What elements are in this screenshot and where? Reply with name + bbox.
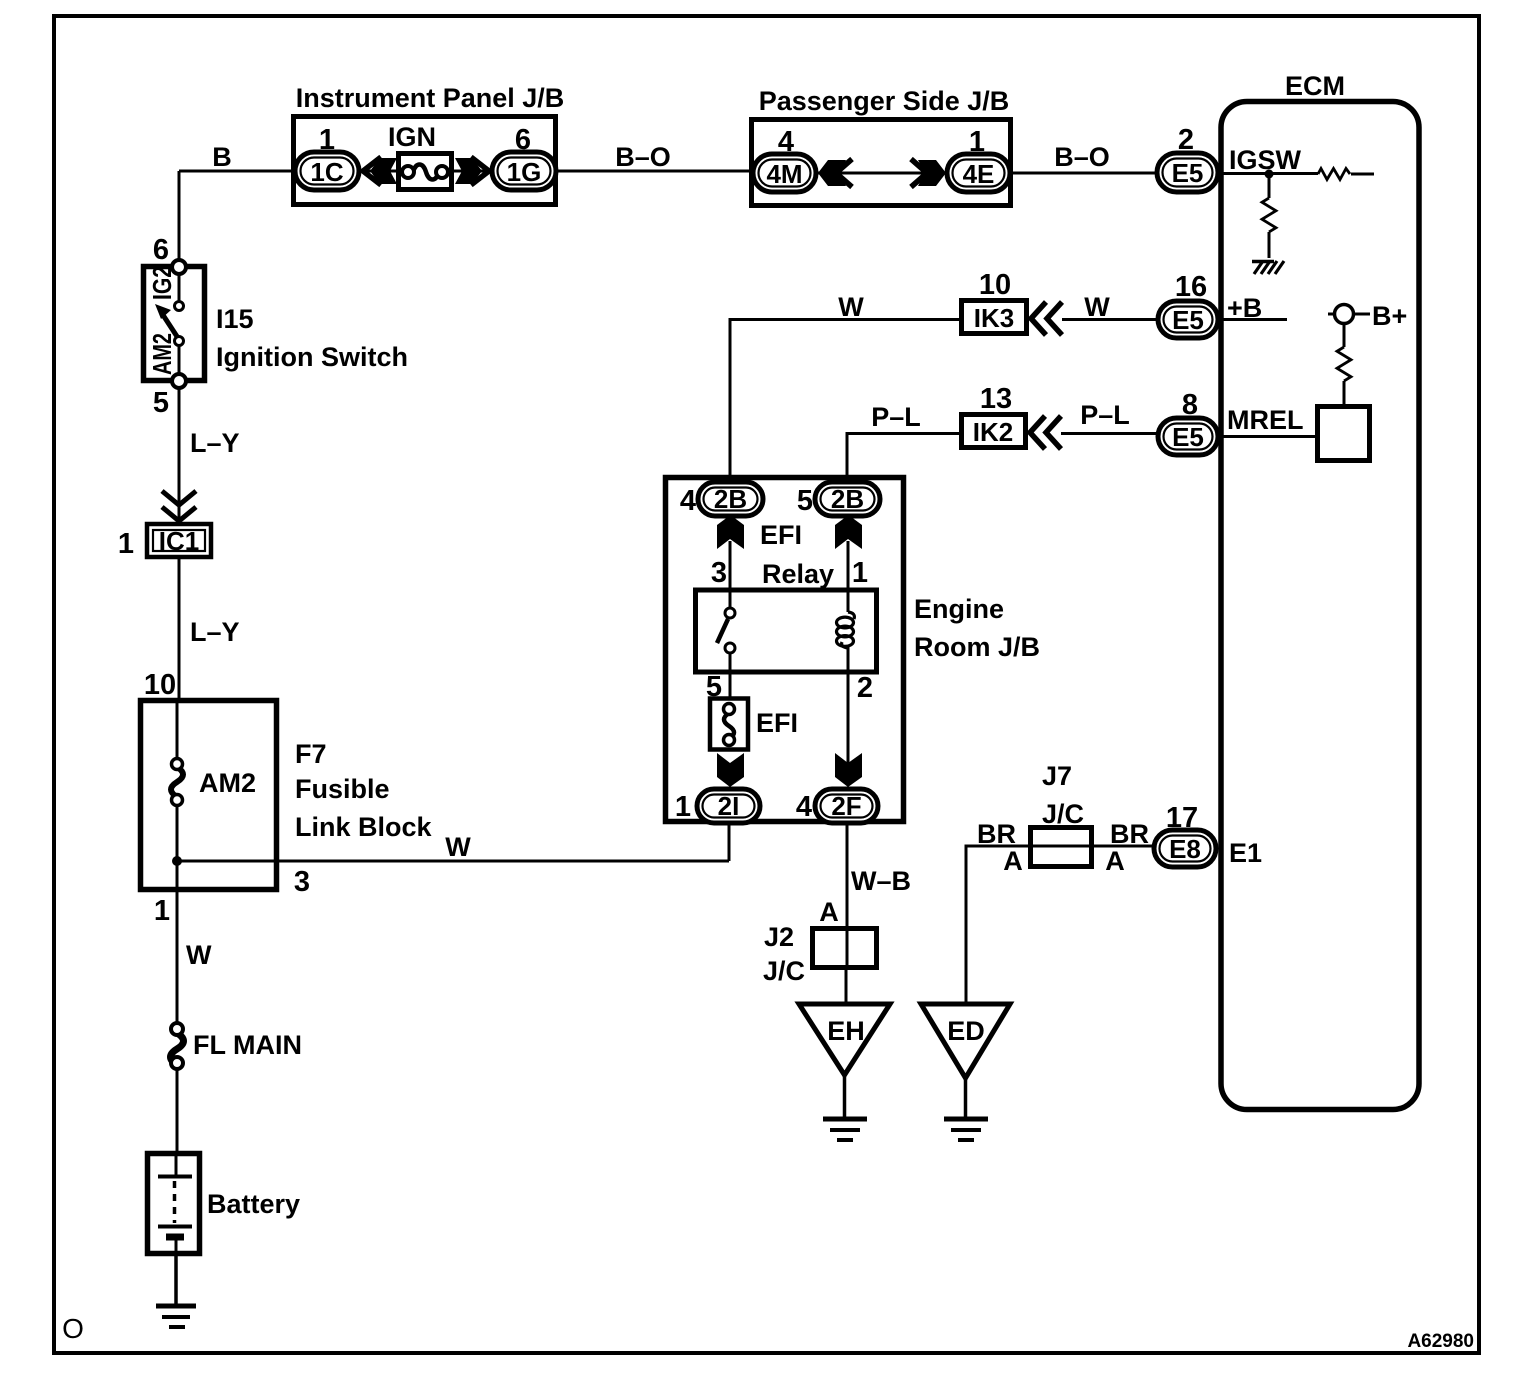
wire B-O: 1G to 4M	[556, 142, 753, 172]
wire P-L: Engine Room J/B 2B pin 5 to IK2	[847, 402, 959, 482]
connector 4E pin 1	[947, 126, 1010, 192]
net +B inside ECM	[1218, 293, 1287, 323]
svg-text:J7: J7	[1042, 761, 1072, 791]
svg-text:EH: EH	[827, 1016, 865, 1046]
svg-text:Engine: Engine	[914, 594, 1004, 624]
svg-text:Battery: Battery	[207, 1189, 300, 1219]
svg-text:E1: E1	[1229, 838, 1262, 868]
svg-text:L–Y: L–Y	[190, 428, 240, 458]
svg-text:W: W	[1084, 292, 1110, 322]
wire: 2I down to W bus	[728, 823, 731, 861]
connector 2I pin 1	[675, 789, 760, 823]
shield ground ED	[921, 1004, 1010, 1140]
wire: pin 6 to contact	[178, 274, 181, 301]
svg-text:IC1: IC1	[159, 526, 199, 556]
bus arrow left (toward 1C)	[363, 157, 381, 185]
svg-text:1: 1	[118, 528, 134, 560]
resistor (IGSW pull-down, vertical)	[1262, 198, 1276, 232]
chevrons (wire continues to IC1)	[162, 491, 196, 521]
switch lever	[163, 315, 178, 338]
svg-text:W–B: W–B	[851, 866, 911, 896]
fuse IGN	[388, 122, 452, 190]
wire: junction to pull-down resistor	[1268, 174, 1271, 258]
wire BR: shield ground ED up to J7	[966, 819, 1030, 1004]
pin 6 terminal	[153, 234, 186, 274]
svg-text:IGN: IGN	[388, 122, 436, 152]
svg-text:A62980: A62980	[1407, 1331, 1474, 1352]
wire B: ignition switch pin 6 to connector 1C	[179, 142, 295, 261]
svg-text:FL MAIN: FL MAIN	[193, 1030, 302, 1060]
wire arrow down (to 2F)	[835, 753, 862, 787]
connector 2F pin 4	[796, 789, 878, 823]
svg-text:4M: 4M	[766, 159, 802, 189]
ground (battery)	[156, 1306, 196, 1327]
chevrons (IK2 to E5)	[1030, 416, 1061, 449]
ECM block	[1221, 71, 1419, 1110]
connector E5 pin 16 (+B)	[1158, 271, 1218, 338]
net MREL inside ECM	[1218, 405, 1315, 437]
junction block: Instrument Panel J/B	[294, 83, 565, 205]
svg-text:B–O: B–O	[1054, 142, 1110, 172]
svg-text:3: 3	[294, 866, 310, 898]
wire L-Y: IC1 to fusible link block	[179, 557, 240, 698]
relay EFI Relay	[696, 520, 877, 672]
svg-text:5: 5	[797, 485, 813, 517]
relay coil	[842, 612, 855, 648]
switch contact (IG2 side)	[175, 302, 184, 311]
svg-text:1C: 1C	[310, 157, 343, 187]
svg-text:3: 3	[711, 557, 727, 589]
connector IK3 pin 10	[962, 269, 1027, 334]
fuse EFI	[710, 699, 798, 750]
wire P-L: IK2 to E5 pin 8	[1061, 400, 1158, 434]
wire arrow up (to 2B pin 4)	[717, 515, 744, 549]
svg-text:IGSW: IGSW	[1229, 145, 1302, 175]
switch I15 Ignition Switch	[144, 267, 408, 381]
svg-text:1: 1	[852, 557, 868, 589]
svg-text:W: W	[186, 940, 212, 970]
wire: pin 10 into block	[176, 700, 179, 758]
svg-text:Link Block: Link Block	[295, 812, 433, 842]
battery	[148, 1153, 301, 1254]
wire: arrow to relay pin 3	[729, 541, 732, 608]
shield ground EH	[799, 1004, 890, 1140]
svg-text:E5: E5	[1172, 422, 1204, 452]
junction connector J7 J/C	[1030, 761, 1092, 867]
svg-text:J/C: J/C	[1042, 799, 1084, 829]
node B+ (battery supply)	[1328, 301, 1407, 404]
svg-text:W: W	[445, 832, 471, 862]
svg-text:Relay: Relay	[762, 559, 834, 589]
wire W: junction to Engine Room J/B 2I	[177, 832, 729, 898]
svg-text:P–L: P–L	[1080, 400, 1130, 430]
svg-text:EFI: EFI	[760, 520, 802, 550]
svg-text:BR: BR	[1110, 819, 1149, 849]
svg-text:16: 16	[1175, 271, 1207, 303]
svg-text:A: A	[1105, 846, 1125, 876]
connector IC1 pin 1	[118, 524, 211, 560]
junction block: Engine Room J/B	[666, 478, 1041, 822]
svg-text:1G: 1G	[507, 157, 542, 187]
connector E8 pin 17 (E1)	[1154, 802, 1216, 867]
wire W: IK3 to E5 pin 16	[1062, 292, 1158, 322]
svg-text:4E: 4E	[963, 159, 995, 189]
chevrons (IK3 to E5)	[1031, 302, 1062, 335]
bus arrow (toward 4M)	[836, 159, 852, 187]
svg-text:A: A	[819, 897, 839, 927]
svg-text:2I: 2I	[718, 791, 740, 821]
svg-text:1: 1	[675, 791, 691, 823]
svg-text:10: 10	[144, 669, 176, 701]
svg-text:6: 6	[153, 234, 169, 266]
svg-text:ECM: ECM	[1285, 71, 1345, 101]
svg-text:AM2: AM2	[199, 768, 256, 798]
connector E5 pin 2 (IGSW)	[1157, 124, 1218, 192]
wire: battery to ground	[174, 1253, 178, 1306]
node: IGSW junction	[1265, 170, 1274, 179]
svg-text:2: 2	[857, 672, 873, 704]
svg-text:Ignition Switch: Ignition Switch	[216, 342, 408, 372]
connector 1G pin 6	[492, 124, 556, 190]
node: junction at pin 3	[172, 856, 182, 866]
block F7 Fusible Link Block	[141, 669, 433, 890]
svg-text:4: 4	[796, 791, 812, 823]
svg-text:B: B	[212, 142, 232, 172]
svg-text:1: 1	[154, 895, 170, 927]
svg-text:IK3: IK3	[974, 303, 1014, 333]
wire W: block pin 1 to FL MAIN	[154, 892, 212, 1024]
connector IK2 pin 13	[962, 383, 1026, 448]
svg-text:L–Y: L–Y	[190, 617, 240, 647]
wire: FL MAIN to battery	[176, 1069, 179, 1153]
svg-text:O: O	[62, 1313, 84, 1344]
junction block: Passenger Side J/B	[752, 86, 1011, 206]
svg-text:A: A	[1003, 846, 1023, 876]
wire arrow down (to 2I)	[717, 753, 744, 787]
fusible link AM2	[171, 759, 256, 806]
wire B-O: 4E to ECM connector E5	[1010, 142, 1157, 173]
wire W-B: 2F to J2	[819, 823, 911, 928]
svg-text:4: 4	[680, 485, 696, 517]
wire W: Engine Room J/B 2B pin 4 to IK3	[730, 292, 959, 482]
wire: internal bus 4M to 4E	[816, 172, 947, 175]
svg-text:2B: 2B	[714, 484, 747, 514]
wire BR: J7 to E8	[1092, 819, 1154, 876]
svg-text:I15: I15	[216, 304, 254, 334]
svg-text:J/C: J/C	[763, 956, 805, 986]
wire: arrow to relay coil pin 1	[847, 541, 850, 612]
wire: contact to pin 5	[178, 346, 181, 374]
svg-text:Fusible: Fusible	[295, 774, 390, 804]
svg-text:IG2: IG2	[147, 266, 177, 300]
svg-text:AM2: AM2	[147, 333, 177, 375]
resistor (IGSW series, horizontal)	[1318, 169, 1350, 180]
svg-text:13: 13	[980, 383, 1012, 415]
svg-text:E5: E5	[1172, 305, 1204, 335]
svg-text:B–O: B–O	[615, 142, 671, 172]
svg-text:MREL: MREL	[1227, 405, 1304, 435]
svg-text:2F: 2F	[831, 791, 861, 821]
svg-text:B+: B+	[1372, 301, 1407, 331]
svg-text:E5: E5	[1172, 158, 1204, 188]
svg-text:F7: F7	[295, 739, 327, 769]
junction connector J2 J/C	[763, 922, 877, 986]
svg-text:ED: ED	[947, 1016, 985, 1046]
svg-text:W: W	[838, 292, 864, 322]
connector 1C pin 1	[295, 124, 359, 190]
svg-text:Passenger Side J/B: Passenger Side J/B	[759, 86, 1010, 116]
svg-text:J2: J2	[764, 922, 794, 952]
wire: relay coil pin 2 to 2F	[848, 646, 873, 765]
fuse FL MAIN	[171, 1023, 303, 1069]
wire arrow up (to 2B pin 5)	[835, 515, 862, 549]
connector E5 pin 8 (MREL)	[1158, 389, 1218, 455]
relay switch contacts	[717, 608, 735, 653]
pin 5 terminal	[153, 374, 186, 419]
wire: internal bus 1C to 1G	[359, 170, 492, 173]
svg-text:IK2: IK2	[973, 417, 1013, 447]
connector 2B pin 4	[680, 482, 763, 517]
wire: J2 to shield ground EH	[845, 968, 848, 1004]
svg-text:Instrument Panel J/B: Instrument Panel J/B	[296, 83, 565, 113]
wire: relay pin 5 to fuse EFI	[706, 653, 730, 703]
wire: fusible link to junction	[176, 805, 179, 892]
svg-text:Room J/B: Room J/B	[914, 632, 1040, 662]
ground (ECM internal)	[1252, 261, 1284, 274]
svg-text:5: 5	[153, 387, 169, 419]
svg-text:2B: 2B	[831, 484, 864, 514]
net IGSW inside ECM	[1218, 145, 1374, 175]
connector 2B pin 5	[797, 482, 880, 517]
driver block (MREL)	[1318, 407, 1370, 461]
svg-text:10: 10	[979, 269, 1011, 301]
svg-text:EFI: EFI	[756, 708, 798, 738]
svg-text:E8: E8	[1169, 834, 1201, 864]
switch contact (AM2 side)	[175, 337, 184, 346]
svg-text:P–L: P–L	[871, 402, 921, 432]
bus arrow (toward 4E)	[911, 159, 927, 187]
connector 4M pin 4	[753, 126, 816, 192]
svg-text:BR: BR	[977, 819, 1016, 849]
bus arrow right (toward 1G)	[471, 157, 489, 185]
resistor (B+ to main relay driver, vertical)	[1337, 347, 1351, 381]
wire L-Y: ignition switch pin 5 to IC1	[179, 388, 240, 522]
